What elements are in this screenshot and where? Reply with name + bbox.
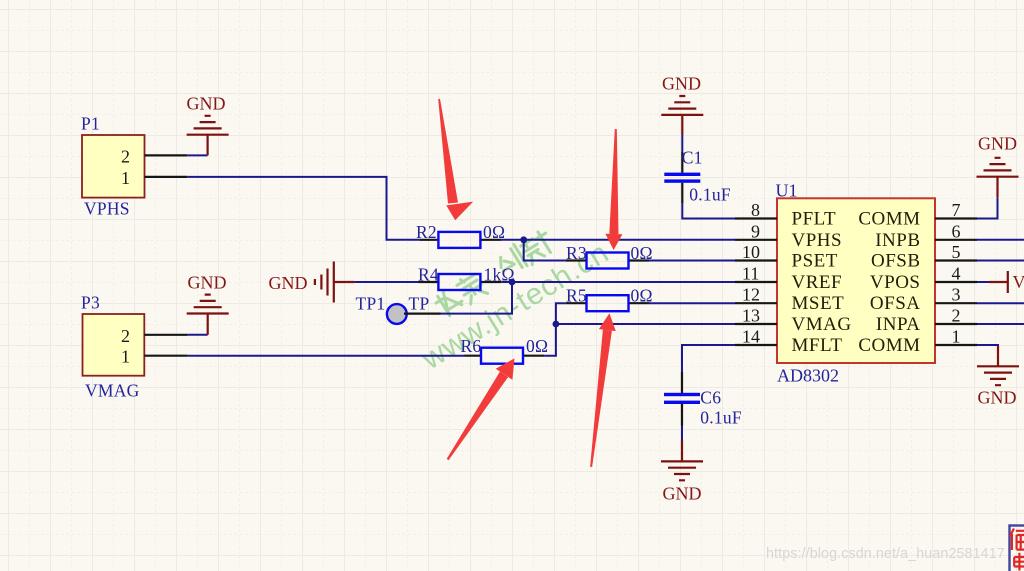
svg-text:PFLT: PFLT: [792, 209, 837, 230]
svg-text:3: 3: [952, 285, 961, 305]
wire U1 pin 1 to GND: [977, 345, 998, 347]
resistor R2: [416, 222, 505, 248]
svg-text:VPHS: VPHS: [792, 230, 843, 251]
wire R2 to U1 pin 9: [501, 239, 735, 241]
svg-text:2: 2: [121, 147, 130, 167]
wire U1 pin 3: [977, 302, 1024, 304]
ground GND at P1: [187, 94, 229, 156]
svg-text:https://blog.csdn.net/a_huan25: https://blog.csdn.net/a_huan2581417: [766, 546, 1005, 562]
svg-text:0.1uF: 0.1uF: [689, 185, 731, 205]
power symbol VP (pin 4): [989, 271, 1024, 293]
red arrow at R2: [438, 99, 473, 220]
wire junction down to TP1: [441, 282, 513, 314]
connector P1: [82, 135, 145, 198]
svg-text:TP: TP: [409, 294, 430, 314]
ground GND at R4 (left-pointing): [269, 262, 355, 303]
resistor R5: [566, 286, 653, 312]
svg-text:GND: GND: [978, 388, 1017, 408]
svg-text:GND: GND: [978, 134, 1017, 154]
wire R6 up to R5: [544, 303, 566, 356]
connector P3: [83, 314, 145, 376]
svg-text:VMAG: VMAG: [792, 314, 852, 335]
wire U1 pin 2: [977, 323, 1024, 325]
resistor R6: [461, 336, 549, 364]
U1 left pin stubs: [735, 219, 777, 346]
ground GND at P3: [187, 273, 229, 335]
red arrow at R6: [447, 358, 515, 460]
svg-text:12: 12: [742, 285, 760, 305]
svg-text:P3: P3: [81, 293, 100, 313]
svg-text:MSET: MSET: [792, 293, 845, 314]
resistor R3: [566, 243, 653, 269]
svg-text:13: 13: [742, 306, 760, 326]
resistor R4: [418, 265, 515, 291]
P1 pin 1 stub: [145, 176, 188, 178]
wire U1 pin 7 to GND: [977, 197, 998, 218]
P3 pin 1 stub: [144, 355, 187, 357]
red arrow at R3: [605, 129, 622, 250]
svg-text:COMM: COMM: [858, 209, 920, 230]
wire U1 pin 5: [977, 260, 1024, 262]
svg-text:P1: P1: [81, 114, 100, 134]
svg-text:R6: R6: [461, 336, 482, 356]
wire R4 to U1 pin 11: [501, 281, 735, 283]
svg-text:R5: R5: [566, 286, 587, 306]
red arrow at R5: [590, 313, 616, 467]
capacitor C1: [664, 148, 731, 205]
svg-text:C1: C1: [682, 148, 703, 168]
ground GND top right: [977, 134, 1019, 198]
svg-text:TP1: TP1: [356, 294, 386, 314]
green watermark: [396, 205, 615, 377]
svg-text:14: 14: [742, 327, 760, 347]
svg-text:8: 8: [751, 200, 760, 220]
svg-text:PSET: PSET: [792, 251, 838, 272]
wire junction down to R3: [524, 240, 566, 261]
wire U1 pin14 to C6: [682, 345, 735, 372]
svg-text:GND: GND: [269, 273, 308, 293]
svg-text:R2: R2: [416, 222, 437, 242]
svg-text:2: 2: [952, 306, 961, 326]
wire U1 pin 6: [977, 239, 1024, 241]
svg-text:R4: R4: [418, 265, 439, 285]
wire VPHS P1 to R2: [187, 177, 419, 240]
svg-text:VPHS: VPHS: [84, 199, 130, 219]
svg-text:1: 1: [952, 327, 961, 347]
svg-text:0Ω: 0Ω: [526, 336, 548, 356]
svg-text:C6: C6: [700, 388, 721, 408]
wire P1 pin2 to GND: [187, 154, 207, 156]
svg-text:5: 5: [952, 242, 961, 262]
svg-text:GND: GND: [188, 273, 227, 293]
wire GND to R4: [355, 281, 419, 283]
red stamp box: [1010, 526, 1024, 571]
svg-text:4: 4: [952, 264, 961, 284]
capacitor C6: [664, 372, 742, 428]
svg-text:VREF: VREF: [792, 272, 843, 293]
junction node R6/pin13: [553, 321, 560, 328]
svg-text:MFLT: MFLT: [792, 335, 843, 356]
junction node R4 out: [509, 279, 516, 286]
P3 pin 2 stub: [144, 334, 187, 336]
svg-text:1: 1: [121, 347, 130, 367]
svg-text:6: 6: [952, 221, 961, 241]
svg-text:INPB: INPB: [875, 230, 920, 251]
wire C6 to GND: [681, 426, 683, 442]
svg-text:11: 11: [742, 264, 759, 284]
svg-text:7: 7: [952, 200, 961, 220]
ground GND at C6: [661, 440, 703, 503]
junction node R2 out: [520, 236, 527, 243]
svg-text:U1: U1: [776, 181, 798, 201]
svg-text:R3: R3: [566, 243, 587, 263]
svg-text:2: 2: [121, 326, 130, 346]
IC U1 body: [777, 198, 935, 363]
svg-text:0.1uF: 0.1uF: [700, 408, 742, 428]
wire junction to U1 pin 13: [556, 323, 735, 325]
svg-text:OFSB: OFSB: [871, 251, 921, 272]
wire R3 to U1 pin 10: [649, 260, 735, 262]
wire VMAG P3 to R6: [188, 355, 465, 357]
svg-text:VP: VP: [1013, 272, 1024, 292]
svg-text:VMAG: VMAG: [85, 381, 140, 401]
wire P3 pin2 to GND: [188, 334, 208, 336]
wire U1 pin 4 to VPOS power: [977, 281, 989, 283]
svg-text:10: 10: [742, 242, 760, 262]
test point TP1: [356, 294, 441, 324]
U1 right pin stubs: [935, 219, 977, 346]
svg-text:COMM: COMM: [858, 335, 920, 356]
wire C1 to U1 pin 8: [682, 204, 735, 219]
svg-text:9: 9: [751, 221, 760, 241]
svg-text:AD8302: AD8302: [777, 366, 839, 386]
svg-text:VPOS: VPOS: [870, 272, 921, 293]
wire GND to C1: [681, 135, 683, 153]
ground GND at C1: [661, 74, 703, 135]
svg-text:OFSA: OFSA: [870, 293, 921, 314]
svg-text:GND: GND: [187, 94, 226, 114]
wire R5 to U1 pin 12: [649, 302, 735, 304]
svg-text:1: 1: [121, 168, 130, 188]
svg-text:INPA: INPA: [876, 314, 921, 335]
P1 pin 2 stub: [145, 154, 188, 156]
svg-text:GND: GND: [662, 74, 701, 94]
ground GND bottom right: [977, 346, 1019, 408]
svg-text:GND: GND: [663, 484, 702, 504]
